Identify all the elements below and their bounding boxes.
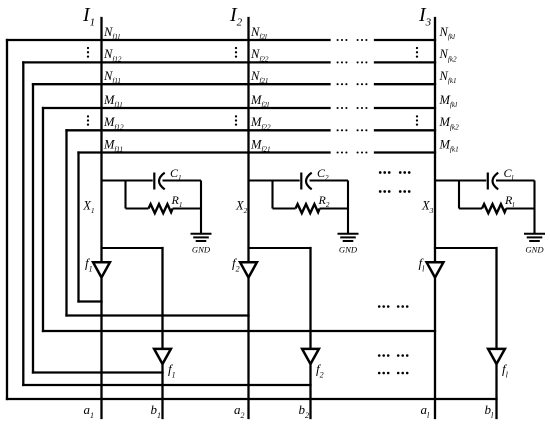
svg-text:GND: GND <box>339 245 358 255</box>
svg-text:GND: GND <box>192 245 211 255</box>
svg-text:GND: GND <box>525 245 544 255</box>
